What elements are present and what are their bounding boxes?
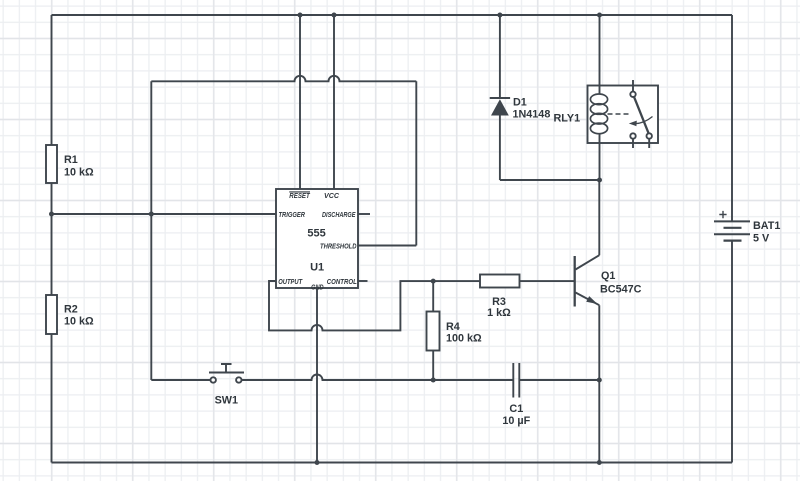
relay RLY1 (588, 13, 659, 181)
resistor R4 (427, 312, 440, 351)
arrow (635, 117, 653, 124)
wire: R4 top lead (432, 281, 434, 311)
diode D1 (490, 15, 510, 180)
svg-text:1 kΩ: 1 kΩ (487, 307, 511, 319)
wire: R3 left lead (433, 280, 480, 282)
svg-text:RESET: RESET (289, 191, 311, 200)
battery BAT1 (714, 211, 750, 241)
svg-text:GND: GND (311, 283, 324, 292)
svg-text:TRIGGER: TRIGGER (279, 210, 306, 219)
junction: R4 / sw1 wire (431, 378, 436, 383)
resistor R3 (480, 275, 520, 288)
svg-text:D1: D1 (513, 96, 527, 108)
capacitor C1 (513, 363, 519, 398)
svg-text:OUTPUT: OUTPUT (278, 277, 303, 286)
junction: gnd / bottom rail (315, 460, 320, 465)
wire: emitter vertical (598, 305, 600, 462)
resistor R1 (46, 145, 57, 183)
junction: emitter / bottom rail (597, 460, 602, 465)
label U1 pin RESET overline (289, 191, 310, 193)
wire: threshold pin horizontal (358, 245, 416, 247)
junction: left rail / trigger (49, 212, 54, 217)
svg-text:U1: U1 (310, 262, 324, 274)
wire: sw1 net left segment (151, 379, 210, 381)
contact circles (630, 92, 635, 97)
switch arm (634, 97, 649, 134)
wire: RESET pin to rail (299, 15, 301, 189)
svg-text:VCC: VCC (324, 191, 340, 200)
wire: DISCHARGE pin stub (358, 213, 370, 215)
wire: sw1 net right segment with hop over gnd (242, 375, 434, 381)
junction: output / R3 R4 node (431, 279, 436, 284)
junction: trigger / threshold branch (149, 212, 154, 217)
svg-text:DISCHARGE: DISCHARGE (322, 210, 356, 219)
svg-text:1N4148: 1N4148 (513, 109, 551, 121)
junction: coil bottom / collector (597, 178, 602, 183)
svg-text:R1: R1 (64, 154, 78, 166)
wire: threshold-trigger vertical link (150, 81, 152, 380)
junction: coil / top rail (597, 13, 602, 18)
wire: threshold right vertical (415, 81, 417, 245)
wire: collector vertical (598, 180, 600, 255)
junction: vcc / top rail (332, 13, 337, 18)
junction: C1 / emitter (597, 378, 602, 383)
svg-text:555: 555 (307, 227, 325, 239)
svg-text:100 kΩ: 100 kΩ (446, 333, 482, 345)
wire: VCC pin to rail (333, 15, 335, 189)
wire: bottom ground rail (52, 462, 733, 464)
wire: right rail (battery branch) (731, 15, 733, 463)
wire: threshold top horizontal with hops over reset and vcc (151, 76, 416, 82)
svg-text:THRESHOLD: THRESHOLD (320, 241, 357, 250)
coil loops (590, 94, 607, 134)
svg-text:R2: R2 (64, 304, 78, 316)
svg-text:10 kΩ: 10 kΩ (64, 316, 94, 328)
resistor R2 (46, 295, 57, 334)
svg-text:Q1: Q1 (601, 270, 615, 282)
bottom stubs (633, 139, 649, 148)
wire: CONTROL pin stub (358, 280, 368, 282)
coil bottom lead (599, 134, 601, 181)
IC U1 555 timer body (276, 189, 358, 288)
wire: C1 to emitter (519, 379, 599, 381)
wire: trigger net horizontal (52, 213, 277, 215)
wire: D1 anode to coil bottom (500, 179, 600, 181)
junction: reset / top rail (298, 13, 303, 18)
svg-text:10 kΩ: 10 kΩ (64, 167, 94, 179)
svg-text:SW1: SW1 (215, 395, 238, 407)
switch SW1 pushbutton (209, 364, 244, 383)
wire: GND pin vertical (316, 288, 318, 463)
wire: R3 right lead to base (520, 280, 575, 282)
dashed actuator line (608, 113, 630, 115)
switch common stub (632, 80, 634, 92)
wire: R4 bottom lead (432, 351, 434, 381)
wire: sw1 net to C1 (433, 379, 513, 381)
coil lead from rail (599, 15, 601, 94)
transistor Q1 (575, 255, 600, 306)
svg-text:C1: C1 (509, 403, 523, 415)
wire: top supply rail (52, 14, 733, 16)
junction: D1 / top rail (497, 13, 502, 18)
svg-text:R4: R4 (446, 321, 460, 333)
svg-text:BC547C: BC547C (600, 284, 642, 296)
plus sign (719, 211, 726, 218)
svg-text:10 µF: 10 µF (502, 415, 530, 427)
svg-text:5 V: 5 V (753, 233, 770, 245)
svg-text:BAT1: BAT1 (753, 220, 780, 232)
wire: OUTPUT feedback loop with hop over gnd (269, 281, 433, 330)
wire: left rail (51, 15, 53, 463)
svg-text:CONTROL: CONTROL (327, 277, 357, 286)
svg-text:RLY1: RLY1 (554, 113, 581, 125)
